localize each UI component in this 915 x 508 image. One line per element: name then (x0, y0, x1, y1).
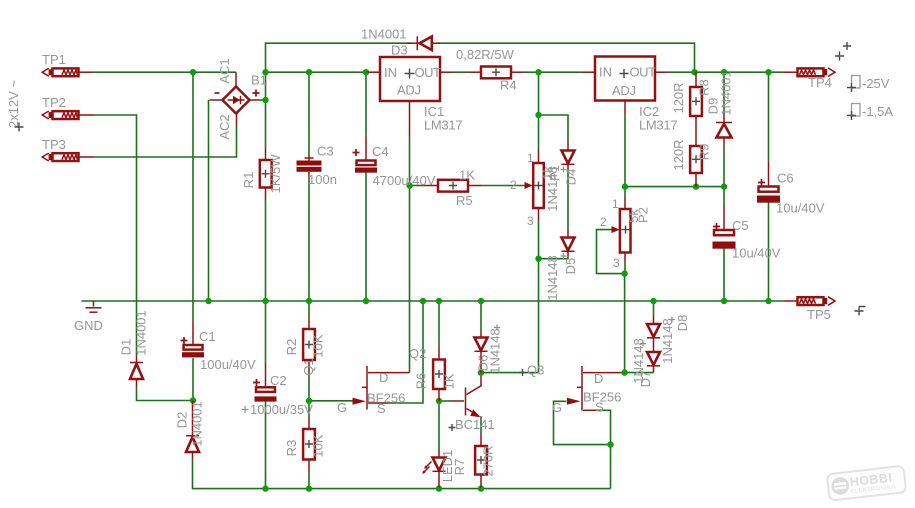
wire: C2 bottom to bottom line (265, 409, 267, 489)
junction (439,488.6) (436, 485, 442, 491)
svg-text:10K: 10K (311, 434, 326, 457)
junction (265.5,488.6) (262, 485, 268, 491)
wire: rail down to D6 (480, 301, 482, 332)
svg-text:Q3: Q3 (527, 363, 544, 378)
svg-text:1N4148: 1N4148 (631, 338, 646, 384)
svg-text:1: 1 (527, 151, 534, 165)
svg-text:1K/5W: 1K/5W (268, 154, 283, 194)
svg-text:10K: 10K (311, 334, 326, 357)
wire: Q2 collector node (480, 373, 482, 376)
wire: P2 pin3 to loop node (624, 262, 626, 274)
wire: R4 to IC2 IN (524, 71, 582, 73)
diode D6 1N4148 (475, 325, 503, 374)
wire: C4 column (365, 72, 367, 301)
wire: D5 to P1 pin3 node (539, 257, 569, 259)
svg-text:100u/40V: 100u/40V (200, 357, 256, 372)
junction (653.5,301) (650, 298, 656, 304)
svg-text:BC141: BC141 (455, 417, 495, 432)
svg-text:GND: GND (74, 318, 103, 333)
wire: Q3 drain node to D7 (621, 372, 654, 374)
svg-text:1000u/35V: 1000u/35V (250, 402, 313, 417)
wire: C5 bottom to rail (723, 249, 725, 302)
junction (624.6,273.6) (621, 270, 627, 276)
svg-text:OUT: OUT (415, 65, 442, 80)
svg-text:1N4001: 1N4001 (361, 27, 407, 42)
resistor R9 120R (671, 139, 712, 186)
junction (423,301) (420, 298, 426, 304)
svg-text:S: S (595, 400, 604, 415)
wire: IC2 ADJ node to R9/D9 (625, 186, 724, 188)
junction (309.5,488.6) (306, 485, 312, 491)
wire: IC2 OUT to TP4 (668, 71, 785, 73)
svg-text:D8: D8 (675, 315, 690, 332)
ground symbol GND (74, 301, 103, 333)
svg-text:TP5: TP5 (807, 307, 831, 322)
junction (193,400.5) (190, 397, 196, 403)
ground rail (82, 300, 785, 302)
svg-text:120R: 120R (671, 139, 686, 170)
capacitor C2 1000u/35V (242, 363, 314, 417)
svg-text:Q2: Q2 (409, 346, 426, 361)
svg-text:1N4001: 1N4001 (719, 70, 734, 116)
diode D4 1N4148 (545, 142, 579, 212)
net label cross at TP5 (855, 307, 866, 316)
svg-text:TP3: TP3 (42, 137, 66, 152)
svg-text:G: G (337, 400, 347, 415)
svg-text:1N4148: 1N4148 (545, 166, 560, 212)
svg-text:AC2: AC2 (217, 114, 232, 139)
wire: R3 bottom to bottom line (308, 472, 310, 489)
svg-text:1N4148: 1N4148 (488, 328, 503, 374)
junction (265.5,72.2) (262, 69, 268, 75)
junction (538.5,72.2) (535, 69, 541, 75)
wire: R6 bottom node to Q2 base (439, 400, 452, 402)
junction (308,72.2) (306, 69, 312, 75)
wire: node(193,72) down to C1 (crosses TP3 wire and rail) (192, 72, 194, 400)
wire: R6 node down to LED1 (438, 401, 440, 449)
capacitor C5 10u/40V (713, 205, 781, 261)
junction (724,186.6) (721, 183, 727, 189)
svg-text:R4: R4 (500, 78, 517, 93)
junction (481,301) (478, 298, 484, 304)
svg-text:C4: C4 (372, 144, 389, 159)
wire: D9 to ADJ node (723, 145, 725, 187)
wire: Q1 source up to rail (388, 301, 423, 403)
svg-text:AC1: AC1 (217, 58, 232, 83)
svg-text:D: D (379, 370, 388, 385)
test point TP5 (784, 297, 835, 322)
svg-text:D2: D2 (175, 412, 190, 429)
wire: gate node to Q1 gate arrow (309, 400, 353, 402)
svg-text:R5: R5 (456, 193, 473, 208)
svg-text:270R: 270R (481, 445, 496, 476)
wire: top loop left (x=265.5 up to y=44, right to D3) (266, 43, 412, 72)
test point TP2 (42, 95, 94, 119)
svg-text:R7: R7 (452, 459, 467, 476)
resistor R8 120R (671, 72, 712, 146)
potentiometer P1 1k (510, 151, 562, 229)
junction (409.5,185.5) (406, 182, 412, 188)
potentiometer P2 5k (600, 197, 651, 271)
svg-text:2x12V ~: 2x12V ~ (6, 80, 21, 128)
capacitor C4 4700u/40V (353, 136, 436, 189)
svg-text:1K: 1K (459, 168, 475, 183)
svg-text:LM317: LM317 (639, 118, 677, 133)
diode D3 1N4001 (top) (361, 27, 440, 58)
wire: bridge plus to x=265.5 column (258, 99, 266, 101)
svg-text:10u/40V: 10u/40V (732, 246, 781, 261)
svg-text:2: 2 (600, 215, 607, 229)
svg-text:P2: P2 (636, 207, 651, 223)
wire: node(538.5,115) to D4 (539, 115, 569, 142)
svg-text:C3: C3 (317, 144, 334, 159)
svg-text:IN: IN (599, 65, 612, 80)
junction (610.5,444.6) (607, 441, 613, 447)
junction (538.5,115) (535, 112, 541, 118)
wire: TP2 down to D1 (94, 115, 137, 356)
svg-text:10u/40V: 10u/40V (776, 201, 825, 216)
junction (624.6,372.6) (621, 369, 627, 375)
LED LED1 (422, 449, 455, 488)
wire: rail down to D8 (653, 301, 655, 316)
svg-text:D3: D3 (391, 43, 408, 58)
wire: node column x=265.5 to R1 (265, 72, 267, 147)
wire: TP1 to bridge AC1 (94, 71, 237, 73)
junction (366,301) (363, 298, 369, 304)
diode D9 1N4001 (706, 70, 734, 145)
svg-text:S: S (377, 401, 386, 416)
junction (439,401) (436, 398, 442, 404)
wire: IC1 ADJ down to Q1 drain (409, 137, 411, 373)
resistor R5 1k (425, 168, 482, 209)
junction (265.5,100) (262, 97, 268, 103)
IC1 LM317 (368, 57, 463, 137)
wire: top loop right (D3 to IC2 OUT node) (438, 43, 695, 72)
junction (724,72.2) (721, 69, 727, 75)
resistor R1 1k/5W (241, 148, 283, 200)
diode D1 1N4001 (119, 310, 149, 386)
wire: bottom line (193, 459, 611, 489)
junction (265.5,301) (262, 298, 268, 304)
svg-text:-1,5A: -1,5A (862, 104, 893, 119)
wire: rail to R6 (438, 301, 440, 347)
svg-text:R2: R2 (284, 339, 299, 356)
watermark logo HOBBI Elektronika (827, 466, 907, 501)
svg-text:D1: D1 (119, 339, 134, 356)
junction (208.5,301) (205, 298, 211, 304)
svg-text:2: 2 (510, 178, 517, 192)
junction (308,301) (306, 298, 312, 304)
svg-text:TP2: TP2 (42, 95, 66, 110)
junction (366,72.2) (363, 69, 369, 75)
junction (193,72.2) (190, 69, 196, 75)
wire: D1 anode to node (193,400.5) (137, 387, 194, 401)
wire: R5 to P1 wiper (482, 185, 525, 187)
svg-text:LM317: LM317 (424, 118, 462, 133)
junction (481,488.6) (478, 485, 484, 491)
transistor Q1 BF256 (JFET) (301, 358, 410, 416)
test point TP1 (42, 52, 94, 76)
svg-text:C2: C2 (270, 373, 287, 388)
svg-text:-25V: -25V (862, 76, 890, 91)
capacitor C3 100n (297, 144, 337, 188)
wire: IC1 OUT to R4 (453, 71, 469, 73)
junction (768.5,72.2) (765, 69, 771, 75)
wire: ADJ node down to C5 (723, 187, 725, 205)
svg-text:Q1: Q1 (301, 358, 316, 375)
wire: P2 node down through rail to Q3 drain node (624, 274, 626, 373)
svg-text:D: D (594, 371, 603, 386)
wire: D9 column top (723, 72, 725, 113)
wire: R1 bottom to rail to C2 (265, 200, 267, 409)
diode D5 1N4148 (545, 229, 578, 301)
IC2 LM317 (582, 57, 677, 133)
wire: bridge minus down to GND rail (208, 100, 210, 301)
wire: C3 column (308, 72, 310, 301)
svg-text:IN: IN (384, 65, 397, 80)
svg-text:100n: 100n (308, 172, 337, 187)
svg-text:B1: B1 (251, 73, 267, 88)
wire: Q3 source loop (597, 410, 611, 444)
resistor R2 10k (284, 317, 326, 373)
wire: D4 to D5 (567, 173, 569, 230)
svg-text:120R: 120R (671, 82, 686, 113)
test point TP3 (42, 137, 94, 161)
diode D2 1N4001 (175, 401, 205, 460)
junction (309.5,400.8) (306, 398, 312, 404)
wire: TP3 to bridge AC2 (94, 127, 237, 158)
wire: R8 R9 column joints (695, 72, 697, 75)
svg-text:0,82R/5W: 0,82R/5W (456, 47, 515, 62)
svg-text:R8: R8 (697, 79, 712, 96)
wire: rail to R2 (308, 301, 310, 317)
svg-text:R1: R1 (241, 172, 256, 189)
test point TP4 (784, 68, 835, 90)
wire: ADJ node to R5 (410, 185, 425, 187)
diode D8 1N4148 (647, 315, 690, 364)
junction (481,372.6) (478, 369, 484, 375)
wire: main bus to P1 pin1 (538, 72, 540, 150)
svg-text:R6: R6 (414, 373, 429, 390)
wire: gate node down to R3 (308, 401, 310, 417)
svg-text:D5: D5 (563, 258, 578, 275)
svg-text:1N4148: 1N4148 (545, 255, 560, 301)
svg-text:D4: D4 (564, 169, 579, 186)
junction (694.5,72.2) (691, 69, 697, 75)
wire: P1 pin3 down through rail to Q2 collector node (481, 221, 539, 373)
svg-text:1K: 1K (442, 373, 457, 389)
junction (768.5,301) (765, 298, 771, 304)
resistor R4 0,82R/5W (456, 47, 524, 93)
wire: C6 column (768, 72, 770, 301)
junction (625,186.6) (622, 183, 628, 189)
wire: R2 bottom to gate node (308, 372, 310, 401)
svg-text:TP4: TP4 (808, 75, 832, 90)
svg-text:ADJ: ADJ (612, 83, 636, 98)
wire: IC2 ADJ down (624, 114, 626, 197)
svg-text:1: 1 (612, 197, 619, 211)
wire: Q2 emitter to R7 (480, 418, 482, 434)
svg-text:ADJ: ADJ (397, 83, 421, 98)
capacitor C6 10u/40V (757, 162, 825, 216)
svg-text:C5: C5 (732, 218, 749, 233)
wire: main bus dot(265.5,72) to IC1 IN (266, 71, 368, 73)
svg-text:1N4148: 1N4148 (660, 318, 675, 364)
svg-text:3: 3 (613, 256, 620, 270)
bridge rectifier B1 (210, 58, 267, 139)
svg-text:C1: C1 (199, 329, 216, 344)
svg-text:TP1: TP1 (42, 52, 66, 67)
net label crosses at TP4 (+) (835, 52, 844, 61)
diode D7 1N4148 (631, 338, 660, 387)
transistor Q2 BC141 (NPN) (409, 346, 495, 432)
capacitor C1 100u/40V (181, 322, 256, 372)
output note: (box)-25V (847, 76, 890, 93)
wire: P2 wiper loop (597, 230, 625, 274)
resistor R7 270R (452, 434, 496, 488)
svg-text:1N4001: 1N4001 (134, 310, 149, 356)
output note: (box)-1,5A (847, 104, 893, 121)
svg-text:R3: R3 (284, 440, 299, 457)
junction (724,301) (721, 298, 727, 304)
svg-text:3: 3 (527, 214, 534, 228)
junction (538.5,258.7) (535, 256, 541, 262)
junction (439,301) (436, 298, 442, 304)
wire: Q3 gate loop (554, 401, 611, 444)
svg-text:1N4001: 1N4001 (190, 401, 205, 447)
wire: Q3 source node to bottom line (610, 445, 612, 489)
resistor R6 1k (414, 347, 457, 401)
svg-text:C6: C6 (777, 171, 794, 186)
svg-text:BF256: BF256 (367, 391, 405, 406)
resistor R3 10k (284, 417, 326, 472)
svg-text:R9: R9 (697, 144, 712, 161)
svg-text:G: G (552, 400, 562, 415)
svg-text:OUT: OUT (630, 65, 657, 80)
transistor Q3 BF256 (JFET) (519, 363, 621, 416)
junction (696,186.6) (693, 183, 699, 189)
